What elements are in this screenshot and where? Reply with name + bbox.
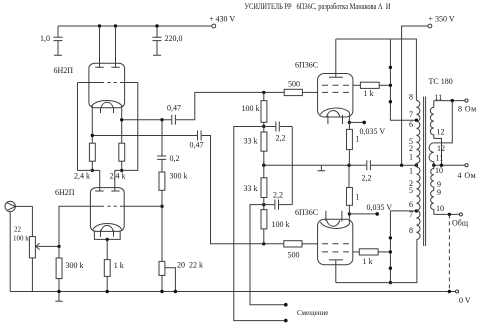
resistor 300 k (grid leak)	[56, 246, 83, 291]
V4 control grid dash	[322, 243, 349, 245]
secondary section 10-9	[431, 165, 434, 190]
V3 cathode	[320, 108, 349, 114]
wire V4 anode to primary bottom	[336, 240, 417, 283]
capacitor 2,2 (top)	[264, 122, 293, 143]
V1 cathode leads	[92, 106, 121, 144]
svg-text:22 k: 22 k	[189, 261, 203, 270]
svg-text:2,2: 2,2	[276, 134, 286, 143]
svg-text:1: 1	[356, 193, 360, 202]
svg-text:8: 8	[409, 93, 413, 102]
capacitor 2,2 (cathode line)	[362, 160, 372, 182]
svg-text:6: 6	[409, 200, 413, 209]
svg-text:1: 1	[409, 153, 413, 162]
V2 cathode arcs	[93, 224, 122, 230]
resistor 33 k (top)	[244, 127, 267, 166]
wire +430V rail	[58, 25, 212, 27]
svg-text:500: 500	[288, 251, 300, 260]
svg-text:33 k: 33 k	[244, 184, 258, 193]
svg-text:300 k: 300 k	[170, 172, 188, 181]
resistor 22 k with tap (20)	[159, 261, 203, 292]
secondary section 9-10	[431, 191, 434, 215]
svg-text:1: 1	[409, 167, 413, 176]
wire V1 left cathode to C 0,47 (lower)	[92, 136, 283, 244]
svg-text:1 k: 1 k	[114, 261, 124, 270]
input connector	[5, 201, 32, 291]
V1 cathode arcs	[92, 101, 123, 107]
svg-text:2,4 k: 2,4 k	[74, 172, 90, 181]
svg-text:7: 7	[409, 110, 413, 119]
svg-text:1 k: 1 k	[363, 257, 373, 266]
resistor 500 (bottom grid stopper)	[284, 241, 318, 260]
resistor 1 (V4 cathode)	[347, 165, 360, 214]
svg-text:7: 7	[409, 210, 413, 219]
svg-text:8: 8	[409, 226, 413, 235]
svg-text:6П36С: 6П36С	[295, 61, 318, 70]
V4 anode	[329, 260, 343, 283]
svg-text:6Н2П: 6Н2П	[54, 66, 74, 75]
tube V2 6Н2П (lower, input)	[55, 188, 124, 241]
terminal 0 V	[455, 290, 458, 293]
svg-text:8 Ом: 8 Ом	[458, 105, 477, 114]
wire common cathode line y165	[264, 164, 417, 166]
chain node A: 0,2 / 300 k	[157, 120, 187, 262]
capacitor 0,2	[157, 156, 166, 159]
node bias top	[262, 125, 265, 128]
V2 anode plates	[95, 190, 119, 192]
terminal +350 V	[428, 24, 432, 28]
svg-text:+ 430 V: + 430 V	[209, 15, 235, 24]
capacitor 0,47 (upper)	[172, 115, 176, 125]
svg-text:10: 10	[435, 166, 443, 175]
wire 0V rail	[10, 291, 455, 293]
capacitor 1,0	[40, 26, 63, 55]
tube V3 6П36С (top output)	[295, 39, 360, 124]
wire wiper to grid	[59, 206, 162, 246]
svg-text:0,47: 0,47	[190, 141, 204, 150]
wire +350V to center tap	[402, 26, 428, 165]
V1 grid line	[78, 82, 138, 84]
svg-text:4 Ом: 4 Ом	[458, 171, 477, 180]
resistor 500 (top grid stopper)	[284, 80, 317, 96]
svg-text:33 k: 33 k	[244, 137, 258, 146]
capacitor 220,0	[153, 26, 183, 55]
node V3 cathode / test point 0,035 V	[348, 121, 351, 124]
ground stub on cathode line	[318, 165, 326, 171]
wire grid drops to V2 anodes	[78, 83, 138, 192]
svg-text:УСИЛИТЕЛЬ РР 6П36С, разработ: УСИЛИТЕЛЬ РР 6П36С, разработка Манакова …	[245, 2, 391, 11]
resistor 1 (V3 cathode)	[347, 122, 360, 165]
wire V1 right cathode to C 0,47 (upper)	[122, 92, 285, 119]
V3 control grid dash	[322, 91, 349, 93]
svg-text:2,2: 2,2	[362, 174, 372, 183]
V3 screen grid dash	[322, 84, 349, 86]
wire bias line (bottom network)	[250, 205, 286, 305]
wire screen chain top	[390, 39, 416, 120]
resistor 2,4 k (left)	[74, 136, 95, 181]
node V4 cathode / test point 0,035 V	[348, 212, 351, 215]
svg-text:2,2: 2,2	[273, 191, 283, 200]
svg-text:6Н2П: 6Н2П	[55, 188, 75, 197]
svg-text:500: 500	[288, 80, 300, 89]
V4 cathode (top)	[320, 222, 349, 228]
node grid circuit V3 (top 6П36С)	[262, 91, 265, 94]
V2 heater stubs	[101, 230, 114, 237]
svg-text:6: 6	[409, 120, 413, 129]
svg-text:Общ: Общ	[452, 219, 468, 228]
tube V1 6Н2П (upper, SRPP top)	[54, 26, 138, 143]
V3 anode	[329, 39, 343, 77]
wire 8 Ом tap	[434, 100, 465, 102]
wire cross-coupling vertical	[291, 127, 293, 205]
svg-text:0 V: 0 V	[459, 296, 471, 305]
svg-text:2,4 k: 2,4 k	[110, 172, 126, 181]
svg-text:12: 12	[437, 144, 445, 153]
svg-text:10: 10	[436, 204, 444, 213]
resistor 33 k (bottom)	[244, 165, 267, 204]
svg-text:100 k: 100 k	[13, 235, 29, 243]
transformer primary bottom half	[416, 167, 420, 240]
resistor 1 k (V3 screen)	[360, 82, 390, 98]
wire 4 Ом tap	[434, 164, 465, 166]
svg-text:0,035 V: 0,035 V	[367, 203, 393, 212]
terminal +430 V	[212, 24, 216, 28]
resistor 1 k (V4 screen)	[359, 249, 390, 266]
svg-text:100 k: 100 k	[242, 104, 260, 113]
transformer core	[424, 97, 426, 247]
ground bar	[55, 292, 62, 302]
potentiometer 22 / 100 k	[13, 206, 59, 291]
resistor 100 k (top)	[242, 92, 267, 126]
svg-text:12: 12	[437, 128, 445, 137]
svg-text:5: 5	[409, 186, 413, 195]
V2 cathode bracket	[94, 231, 120, 239]
transformer primary top half	[416, 100, 420, 167]
wire V3 anode to primary top	[336, 39, 417, 100]
svg-text:Смещение: Смещение	[297, 309, 328, 317]
svg-text:ТС 180: ТС 180	[429, 77, 453, 86]
secondary section 12-11	[429, 143, 434, 165]
secondary section 11-12	[430, 101, 441, 166]
svg-text:1,0: 1,0	[40, 34, 50, 43]
resistor 300 k (feedback chain)	[159, 172, 165, 190]
svg-text:6П36С: 6П36С	[295, 208, 318, 217]
V1 anode leads and plates	[95, 26, 119, 67]
node grid circuit V4 (bottom 6П36С)	[262, 242, 265, 245]
wire bias line (top network)	[234, 127, 286, 321]
capacitor 2,2 (bottom)	[264, 191, 293, 210]
resistor 100 k (bottom)	[261, 205, 290, 244]
wire feedback (dashed)	[448, 214, 450, 291]
svg-text:300 k: 300 k	[66, 261, 84, 270]
svg-text:100 k: 100 k	[272, 220, 290, 229]
V1 heater stubs	[101, 108, 114, 113]
V4 screen grid dash	[322, 251, 349, 253]
svg-text:0,47: 0,47	[167, 104, 181, 113]
capacitor 0,47 (lower)	[198, 131, 202, 141]
svg-text:0,2: 0,2	[170, 154, 180, 163]
svg-text:0,035 V: 0,035 V	[360, 127, 386, 136]
svg-text:20: 20	[177, 261, 185, 270]
node bias bottom	[262, 203, 265, 206]
resistor 1 k (V2 cathode)	[104, 239, 124, 291]
resistor 2,4 k (right)	[110, 143, 126, 180]
svg-text:1: 1	[356, 135, 360, 144]
junction dots on +430 rail	[98, 24, 101, 27]
svg-text:22: 22	[14, 226, 22, 234]
tube V4 6П36С (bottom output)	[295, 208, 359, 283]
wiper arrow	[36, 245, 59, 247]
wire Общ tap	[434, 213, 459, 215]
svg-text:1 k: 1 k	[364, 89, 374, 98]
junction dots on 0V rail	[57, 290, 60, 293]
svg-text:11: 11	[436, 154, 444, 163]
svg-text:220,0: 220,0	[165, 34, 183, 43]
svg-text:9: 9	[437, 188, 441, 197]
wire screen chain bottom	[390, 211, 416, 283]
V2 grid line dashes inside	[104, 205, 117, 207]
svg-text:+ 350 V: + 350 V	[429, 15, 455, 24]
